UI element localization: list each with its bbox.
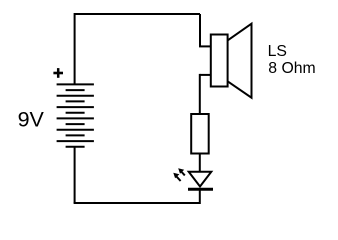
LED D1 light arrow 2 — [178, 168, 185, 175]
LED D1 light arrow 1 — [173, 173, 180, 181]
svg-text:LS: LS — [268, 43, 287, 60]
loudspeaker LS1 body — [211, 35, 228, 87]
battery B1 plus label — [53, 68, 63, 78]
wire left top (battery positive lead) — [74, 13, 76, 84]
svg-text:8 Ohm: 8 Ohm — [268, 60, 315, 77]
loudspeaker LS1 cone — [228, 24, 252, 98]
wire from speaker bottom terminal — [200, 74, 211, 76]
wire right top (down from top wire) — [199, 14, 201, 46]
wire top (battery + to speaker branch) — [75, 13, 200, 15]
resistor R1 — [191, 114, 209, 154]
wire resistor to LED D1 — [199, 154, 201, 173]
battery B1 9V multi-cell symbol — [57, 84, 94, 146]
wire bottom — [74, 202, 200, 204]
wire to speaker top terminal — [199, 45, 211, 47]
LED D1 triangle (anode) — [189, 172, 212, 187]
wire LED cathode to bottom wire — [199, 189, 201, 204]
svg-text:9V: 9V — [18, 108, 45, 132]
LED D1 cathode bar — [188, 188, 213, 191]
wire down to resistor R1 — [199, 74, 201, 114]
wire left bottom (battery negative lead) — [74, 147, 76, 203]
